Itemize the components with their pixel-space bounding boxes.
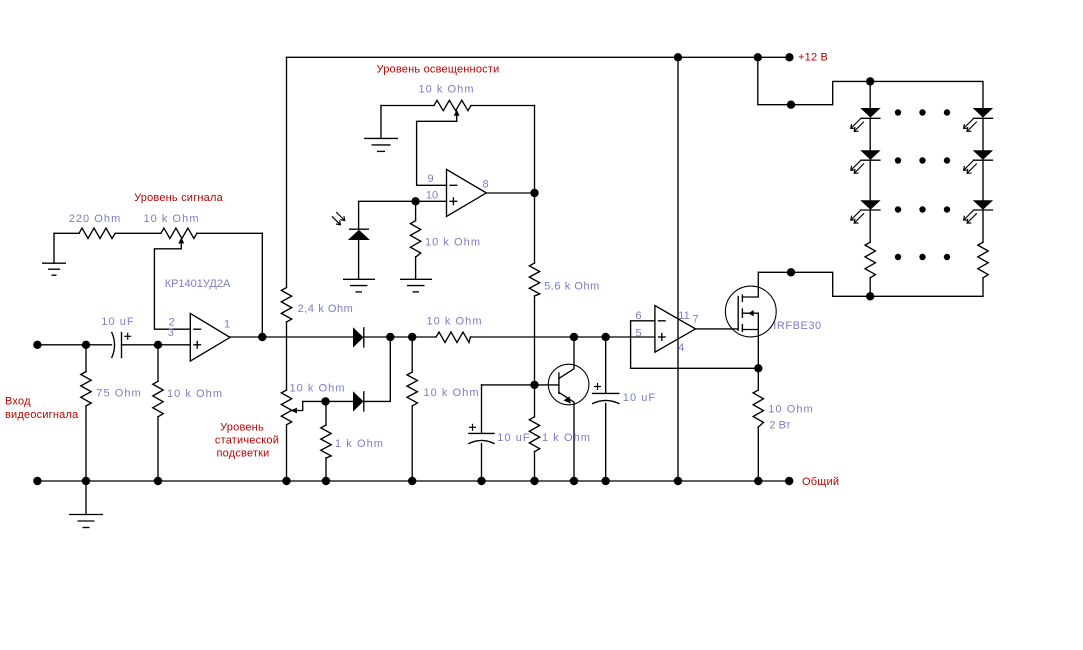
svg-text:статической: статической — [215, 435, 279, 447]
node rail source — [754, 477, 762, 485]
diode D2 — [353, 391, 364, 411]
wire drain to array — [758, 272, 983, 296]
node pin10 — [411, 197, 419, 205]
node 12v tap — [787, 101, 795, 109]
node +12 terminal — [785, 53, 793, 61]
wire input left segment — [37, 344, 111, 346]
node rail 10k mid — [408, 477, 416, 485]
ground G2 — [69, 515, 103, 528]
wire led array left string top — [869, 81, 871, 108]
wire 5.6k to base node — [534, 296, 536, 385]
wire 1k bottom — [325, 458, 327, 481]
node rail supply — [674, 477, 682, 485]
opamp U3 output stage — [655, 306, 696, 353]
resistor R led left — [865, 242, 875, 278]
node drain tap — [787, 268, 795, 276]
wire cap1 branch horizontal — [482, 384, 535, 386]
node base — [530, 381, 538, 389]
wire top rail — [287, 56, 790, 58]
pot1 wiper arrow — [178, 237, 184, 243]
diode D1 — [353, 327, 364, 347]
node diode2 riser — [386, 333, 394, 341]
node op1 output — [258, 333, 266, 341]
wire 10k input bottom — [157, 417, 159, 481]
opamp U3 minus — [658, 320, 666, 322]
wire source down — [757, 313, 759, 390]
wire pot2 wiper — [294, 401, 325, 410]
opamp U1 KR1401UD2A — [190, 313, 230, 361]
wire 10k input top stub — [157, 345, 159, 382]
potentiometer 10k signal level — [161, 228, 197, 238]
wire 75 Ohm bottom — [85, 406, 87, 481]
mosfet Q2 substrate lead — [742, 312, 758, 314]
resistor R 5.6k — [529, 263, 539, 296]
wire main out op1 — [230, 336, 353, 338]
wire base node to 1k right stub — [534, 385, 536, 417]
capacitor C1 10uF straight plate — [121, 333, 123, 358]
svg-text:Вход: Вход — [5, 396, 31, 408]
LED3 left — [860, 200, 880, 210]
ground G5 — [400, 279, 432, 292]
transistor Q1 base bar — [558, 373, 560, 393]
svg-text:2 Вт: 2 Вт — [769, 420, 790, 432]
mosfet Q2 circle — [725, 286, 776, 337]
wire 5.6k top stub — [534, 193, 536, 263]
svg-text:75 Ohm: 75 Ohm — [96, 388, 141, 400]
resistor R 10k mid vertical — [407, 372, 417, 406]
capacitor C3 10uF curved plate — [593, 400, 619, 403]
svg-text:1 k Ohm: 1 k Ohm — [335, 438, 384, 450]
opamp U2 plus — [449, 200, 457, 202]
node +12 branch — [754, 53, 762, 61]
wire 10 Ohm bottom — [757, 427, 759, 481]
wire op3 feedback loop — [631, 321, 759, 369]
svg-text:10 k Ohm: 10 k Ohm — [289, 383, 345, 395]
svg-text:1 k Ohm: 1 k Ohm — [542, 432, 591, 444]
mosfet Q2 channel segment 3 — [741, 325, 743, 332]
node supply top — [674, 53, 682, 61]
resistor R 1k right — [529, 417, 539, 452]
svg-text:6: 6 — [636, 310, 642, 322]
svg-text:10 k Ohm: 10 k Ohm — [418, 84, 474, 96]
wire 10k op2 top stub — [415, 201, 417, 220]
node rail emitter — [570, 477, 578, 485]
resistor R 1k left — [321, 425, 331, 458]
svg-text:4: 4 — [678, 342, 684, 354]
svg-text:5.6 k Ohm: 5.6 k Ohm — [544, 281, 600, 293]
node rail pot2 — [282, 477, 290, 485]
node rail 10k — [154, 477, 162, 485]
potentiometer 10k static backlight — [281, 390, 291, 425]
potentiometer 10k light level — [434, 100, 471, 110]
wire 10k mid top stub — [411, 337, 413, 372]
node led array top — [866, 77, 874, 85]
ground G1 — [42, 263, 66, 275]
led array ellipsis dots — [895, 109, 950, 260]
photodiode VD1 — [348, 230, 370, 240]
svg-text:10: 10 — [426, 190, 438, 202]
wire 1k stub — [325, 401, 327, 425]
wire op3 output to gate — [696, 328, 739, 330]
svg-text:IRFBE30: IRFBE30 — [773, 320, 821, 332]
svg-text:7: 7 — [693, 313, 699, 325]
resistor R 10k op2 — [410, 221, 420, 257]
node pot2 wiper — [321, 397, 329, 405]
resistor R led right — [978, 242, 988, 278]
svg-text:220 Ohm: 220 Ohm — [69, 213, 122, 225]
wire pot1 wiper — [154, 242, 190, 330]
wire feedback top op1 — [197, 232, 262, 234]
mosfet Q2 substrate arrow — [748, 310, 753, 316]
wire photodiode top stem — [358, 201, 360, 229]
node cap2 top — [602, 333, 610, 341]
svg-text:9: 9 — [427, 173, 433, 185]
pot3 wiper arrow — [454, 110, 460, 116]
svg-text:10 uF: 10 uF — [497, 432, 530, 444]
svg-text:10 k Ohm: 10 k Ohm — [426, 316, 482, 328]
node 10k mid top — [408, 333, 416, 341]
transistor Q1 emitter arrow — [564, 396, 571, 403]
pot2 wiper arrow — [291, 408, 297, 414]
wire led string right segment 1 — [982, 118, 984, 150]
wire photodiode bottom stem — [358, 240, 360, 279]
node rail 75 — [82, 477, 90, 485]
LED1 right — [973, 108, 993, 118]
wire ground stem G3 — [380, 106, 382, 139]
svg-text:10 uF: 10 uF — [101, 316, 134, 328]
transistor Q1 emitter — [559, 392, 574, 481]
wire led string right segment 3 — [982, 210, 984, 242]
wire cap2 bottom — [605, 404, 607, 482]
transistor Q1 collector — [559, 337, 574, 379]
node source feedback — [754, 364, 762, 372]
wire ground to 220 — [54, 232, 79, 234]
svg-text:3: 3 — [168, 327, 174, 339]
svg-text:Уровень сигнала: Уровень сигнала — [134, 192, 223, 204]
wire op2 feedback top left — [381, 105, 434, 107]
svg-text:Общий: Общий — [802, 476, 839, 488]
wire led string left segment 3 — [869, 210, 871, 242]
wire 10k mid bottom — [411, 406, 413, 481]
opamp U2 light level — [447, 169, 487, 216]
node led array bottom — [866, 292, 874, 300]
wire pot op2 wiper — [417, 114, 457, 186]
wire led string right segment 2 — [982, 160, 984, 200]
light arrows photodiode — [332, 212, 345, 225]
resistor R 10 Ohm 2W — [753, 390, 763, 427]
wire ground stem G1 — [53, 233, 55, 263]
svg-text:10 k Ohm: 10 k Ohm — [425, 237, 481, 249]
wire op2 feedback right — [471, 105, 535, 107]
wire feedback riser op1 — [261, 233, 263, 337]
wire series R to op3 pin5 — [471, 336, 655, 338]
svg-text:1: 1 — [224, 319, 230, 331]
LED2 right — [973, 150, 993, 160]
wire 10k op2 bottom stub — [415, 257, 417, 279]
wire op3 supply vertical — [677, 57, 679, 481]
node rail 1k right — [530, 477, 538, 485]
svg-text:видеосигнала: видеосигнала — [5, 409, 79, 421]
wire op3 pin6 — [631, 320, 655, 322]
node collector — [570, 333, 578, 341]
ground G4 photodiode — [343, 279, 375, 292]
svg-text:+12 В: +12 В — [798, 52, 828, 64]
wire 2.4k to pot — [286, 322, 288, 390]
wire led string left segment 1 — [869, 118, 871, 150]
mosfet Q2 drain lead — [742, 272, 758, 297]
opamp U1 plus — [193, 344, 201, 346]
resistor R 10k input — [153, 381, 163, 417]
transistor Q1 circle — [548, 364, 589, 405]
light arrows LEDs — [851, 119, 977, 223]
node common terminal — [785, 477, 793, 485]
mosfet Q2 channel segment 2 — [741, 309, 743, 317]
resistor R 10k series main — [436, 332, 471, 342]
capacitor C1 plus — [124, 333, 131, 340]
wire +12V branch — [758, 57, 983, 108]
opamp U2 minus — [449, 184, 457, 186]
svg-text:10 k Ohm: 10 k Ohm — [423, 387, 479, 399]
svg-text:5: 5 — [636, 327, 642, 339]
wire led string left segment 2 — [869, 160, 871, 200]
wire cap to opamp pin3 — [122, 344, 191, 346]
svg-text:10 uF: 10 uF — [623, 392, 656, 404]
node input top terminal — [33, 341, 41, 349]
svg-text:10 k Ohm: 10 k Ohm — [143, 213, 199, 225]
node 75 Ohm top — [82, 341, 90, 349]
svg-text:КР1401УД2А: КР1401УД2А — [165, 278, 231, 290]
opamp U3 plus — [658, 336, 666, 338]
wire op2 pin10 — [359, 200, 447, 202]
wire left riser to R 2.4k — [286, 57, 288, 287]
node rail 1k — [322, 477, 330, 485]
node rail cap1 — [477, 477, 485, 485]
capacitor C1 10uF curved plate — [112, 333, 115, 358]
mosfet Q2 source lead — [742, 329, 758, 331]
capacitor C2 plus — [469, 424, 476, 431]
svg-text:8: 8 — [483, 179, 489, 191]
mosfet Q2 gate bar — [737, 297, 739, 331]
wire bottom rail — [37, 480, 789, 482]
wire cap1 bottom — [481, 444, 483, 482]
capacitor C2 10uF curved plate — [469, 440, 494, 443]
svg-text:Уровень: Уровень — [220, 422, 264, 434]
node rail cap2 — [602, 477, 610, 485]
capacitor C2 10uF straight plate — [469, 432, 494, 434]
wire diode2 branch riser — [364, 337, 391, 401]
wire 220 to pot1 — [115, 232, 161, 234]
mosfet Q2 channel segment 1 — [741, 295, 743, 302]
wire pot to bottom rail — [286, 425, 288, 481]
LED2 left — [860, 150, 880, 160]
wire led left resistor bottom — [869, 278, 871, 297]
resistor R 2,4 k Ohm — [281, 288, 291, 323]
svg-text:подсветки: подсветки — [216, 448, 269, 460]
svg-text:10 Ohm: 10 Ohm — [768, 404, 813, 416]
svg-text:2,4 k Ohm: 2,4 k Ohm — [298, 303, 354, 315]
capacitor C3 plus — [594, 383, 601, 390]
capacitor C3 10uF straight plate — [593, 392, 619, 394]
node op2 output — [530, 189, 538, 197]
node pin3 — [154, 341, 162, 349]
wire 75 Ohm top stub — [85, 345, 87, 372]
node input bottom terminal — [33, 477, 41, 485]
svg-text:11: 11 — [678, 310, 689, 322]
opamp U1 minus — [193, 328, 201, 330]
LED3 right — [973, 200, 993, 210]
wire op2 feedback riser — [534, 106, 536, 194]
wire diode2 anode — [326, 400, 354, 402]
wire op2 output — [486, 192, 534, 194]
ground G3 — [364, 138, 398, 151]
wire 1k right bottom — [534, 452, 536, 481]
wire cap1 stem — [481, 385, 483, 434]
wire cap2 stem — [605, 337, 607, 393]
wire input to bottom ground stem — [85, 481, 87, 515]
wire diode1 cathode to R series — [364, 336, 436, 338]
resistor R 75 Ohm — [81, 372, 91, 406]
LED1 left — [860, 108, 880, 118]
resistor R 220 Ohm — [79, 228, 115, 238]
svg-text:10 k Ohm: 10 k Ohm — [167, 388, 223, 400]
wire transistor base — [535, 384, 559, 386]
svg-text:Уровень освещенности: Уровень освещенности — [377, 64, 500, 76]
